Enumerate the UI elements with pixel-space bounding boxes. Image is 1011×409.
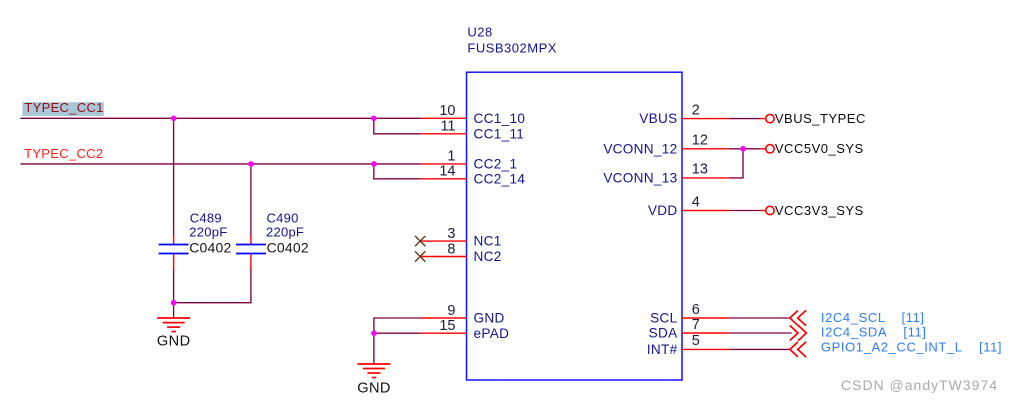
wire VBUS to port: [729, 118, 760, 120]
offpage connector I2C4_SCL: [790, 310, 925, 326]
wire SDA: [729, 332, 792, 334]
wire GND1 stem: [173, 303, 175, 318]
junction dot CC1-pin11: [371, 116, 377, 122]
svg-text:3: 3: [447, 226, 455, 242]
wire VCONN_12 to port: [729, 148, 760, 150]
pin 1 CC2_1: [421, 149, 518, 172]
pin 12 VCONN_12: [603, 133, 728, 157]
svg-text:TYPEC_CC2: TYPEC_CC2: [24, 146, 103, 161]
svg-text:220pF: 220pF: [189, 225, 227, 240]
port VCC3V3_SYS: [760, 203, 864, 218]
svg-text:U28: U28: [467, 25, 492, 40]
svg-text:14: 14: [439, 164, 455, 180]
svg-text:1: 1: [447, 149, 455, 165]
wire C489 vertical: [173, 118, 175, 235]
pin 2 VBUS: [639, 102, 729, 126]
svg-text:ePAD: ePAD: [474, 326, 510, 341]
svg-text:GND: GND: [157, 333, 191, 349]
svg-text:FUSB302MPX: FUSB302MPX: [467, 41, 557, 56]
wire TYPEC_CC1 horizontal: [21, 117, 421, 119]
svg-text:I2C4_SCL: I2C4_SCL: [821, 310, 886, 325]
pin 13 VCONN_13: [603, 162, 728, 186]
capacitor C490: [236, 210, 309, 269]
svg-text:[11]: [11]: [903, 325, 926, 340]
svg-text:10: 10: [439, 103, 455, 119]
svg-text:9: 9: [447, 303, 455, 319]
junction dot caps-GND1: [171, 300, 177, 306]
svg-text:CSDN @andyTW3974: CSDN @andyTW3974: [841, 377, 998, 393]
capacitor C489: [159, 210, 232, 269]
pin 14 CC2_14: [421, 164, 526, 187]
port VBUS_TYPEC: [760, 111, 866, 126]
ground GND2: [357, 364, 391, 396]
pin 3 NC1 with no-connect X: [415, 226, 502, 249]
svg-text:VDD: VDD: [648, 203, 678, 218]
pin 7 SDA: [649, 317, 729, 341]
wire VDD to port: [729, 210, 760, 212]
svg-text:NC2: NC2: [474, 249, 502, 264]
wire SCL: [729, 317, 790, 319]
svg-text:INT#: INT#: [647, 342, 678, 357]
junction dot CC2-C490: [248, 161, 254, 167]
svg-text:VCONN_13: VCONN_13: [603, 171, 677, 186]
svg-text:6: 6: [692, 302, 700, 318]
pin 8 NC2 with no-connect X: [415, 241, 502, 264]
svg-text:[11]: [11]: [979, 339, 1002, 354]
svg-text:SDA: SDA: [649, 326, 678, 341]
wire C490 bottom and across: [174, 269, 251, 303]
pin 5 INT#: [647, 333, 729, 357]
junction dot CC2-pin14: [371, 161, 377, 167]
offpage connector GPIO1_A2_CC_INT_L: [790, 339, 1002, 357]
ground GND1: [157, 318, 191, 349]
pin 10 CC1_10: [421, 103, 526, 126]
svg-text:11: 11: [440, 119, 455, 135]
port VCC5V0_SYS: [760, 141, 864, 156]
svg-text:VBUS: VBUS: [639, 111, 677, 126]
offpage connector I2C4_SDA: [790, 325, 927, 341]
pin 11 CC1_11: [421, 119, 525, 142]
svg-text:VCC5V0_SYS: VCC5V0_SYS: [775, 141, 864, 156]
svg-text:C0402: C0402: [189, 240, 231, 256]
pin 6 SCL: [650, 302, 729, 326]
svg-text:13: 13: [692, 162, 708, 178]
svg-text:5: 5: [692, 333, 700, 349]
svg-text:NC1: NC1: [474, 234, 502, 249]
svg-text:SCL: SCL: [650, 311, 677, 326]
svg-text:GND: GND: [357, 380, 391, 396]
svg-text:VCC3V3_SYS: VCC3V3_SYS: [775, 203, 864, 218]
svg-text:CC2_1: CC2_1: [474, 157, 518, 172]
svg-text:CC2_14: CC2_14: [474, 171, 526, 186]
svg-text:7: 7: [692, 317, 700, 333]
svg-text:VBUS_TYPEC: VBUS_TYPEC: [775, 111, 866, 126]
pin 9 GND: [421, 303, 505, 326]
svg-text:12: 12: [692, 133, 708, 149]
svg-text:220pF: 220pF: [266, 225, 304, 240]
svg-text:2: 2: [692, 102, 700, 118]
svg-text:TYPEC_CC1: TYPEC_CC1: [24, 100, 103, 115]
svg-text:8: 8: [447, 241, 455, 257]
wire pin9 to GND2: [374, 318, 421, 333]
pin 4 VDD: [648, 194, 729, 218]
svg-text:I2C4_SDA: I2C4_SDA: [821, 325, 887, 340]
wire TYPEC_CC2 horizontal: [21, 163, 421, 165]
wire GND2 stem: [373, 333, 375, 364]
pin 15 ePAD: [421, 318, 510, 341]
svg-text:VCONN_12: VCONN_12: [603, 141, 677, 156]
wire CC2 branch to pin 14: [374, 164, 421, 179]
wire pin15: [374, 332, 421, 334]
svg-text:4: 4: [692, 194, 700, 210]
wire INT#: [729, 348, 790, 350]
svg-text:GPIO1_A2_CC_INT_L: GPIO1_A2_CC_INT_L: [821, 339, 963, 354]
svg-text:C0402: C0402: [267, 240, 309, 256]
svg-text:C489: C489: [190, 210, 222, 225]
junction dot CC1-C489: [171, 116, 177, 122]
wire C489 bottom to junction: [173, 269, 175, 303]
svg-text:CC1_10: CC1_10: [474, 111, 526, 126]
wire C490 vertical: [250, 164, 252, 236]
junction dot VCONN net: [740, 146, 746, 152]
junction dot pin15-GND2: [371, 330, 377, 336]
svg-text:CC1_11: CC1_11: [474, 126, 525, 141]
wire VCONN_13 up to VCONN_12 net: [729, 149, 743, 178]
wire CC1 branch to pin 11: [374, 118, 421, 134]
svg-text:C490: C490: [267, 210, 299, 225]
svg-text:GND: GND: [474, 311, 505, 326]
svg-text:15: 15: [439, 318, 455, 334]
IC U28 body: [467, 72, 683, 380]
node TYPEC_CC1 highlight: [22, 102, 103, 116]
svg-text:[11]: [11]: [902, 310, 925, 325]
